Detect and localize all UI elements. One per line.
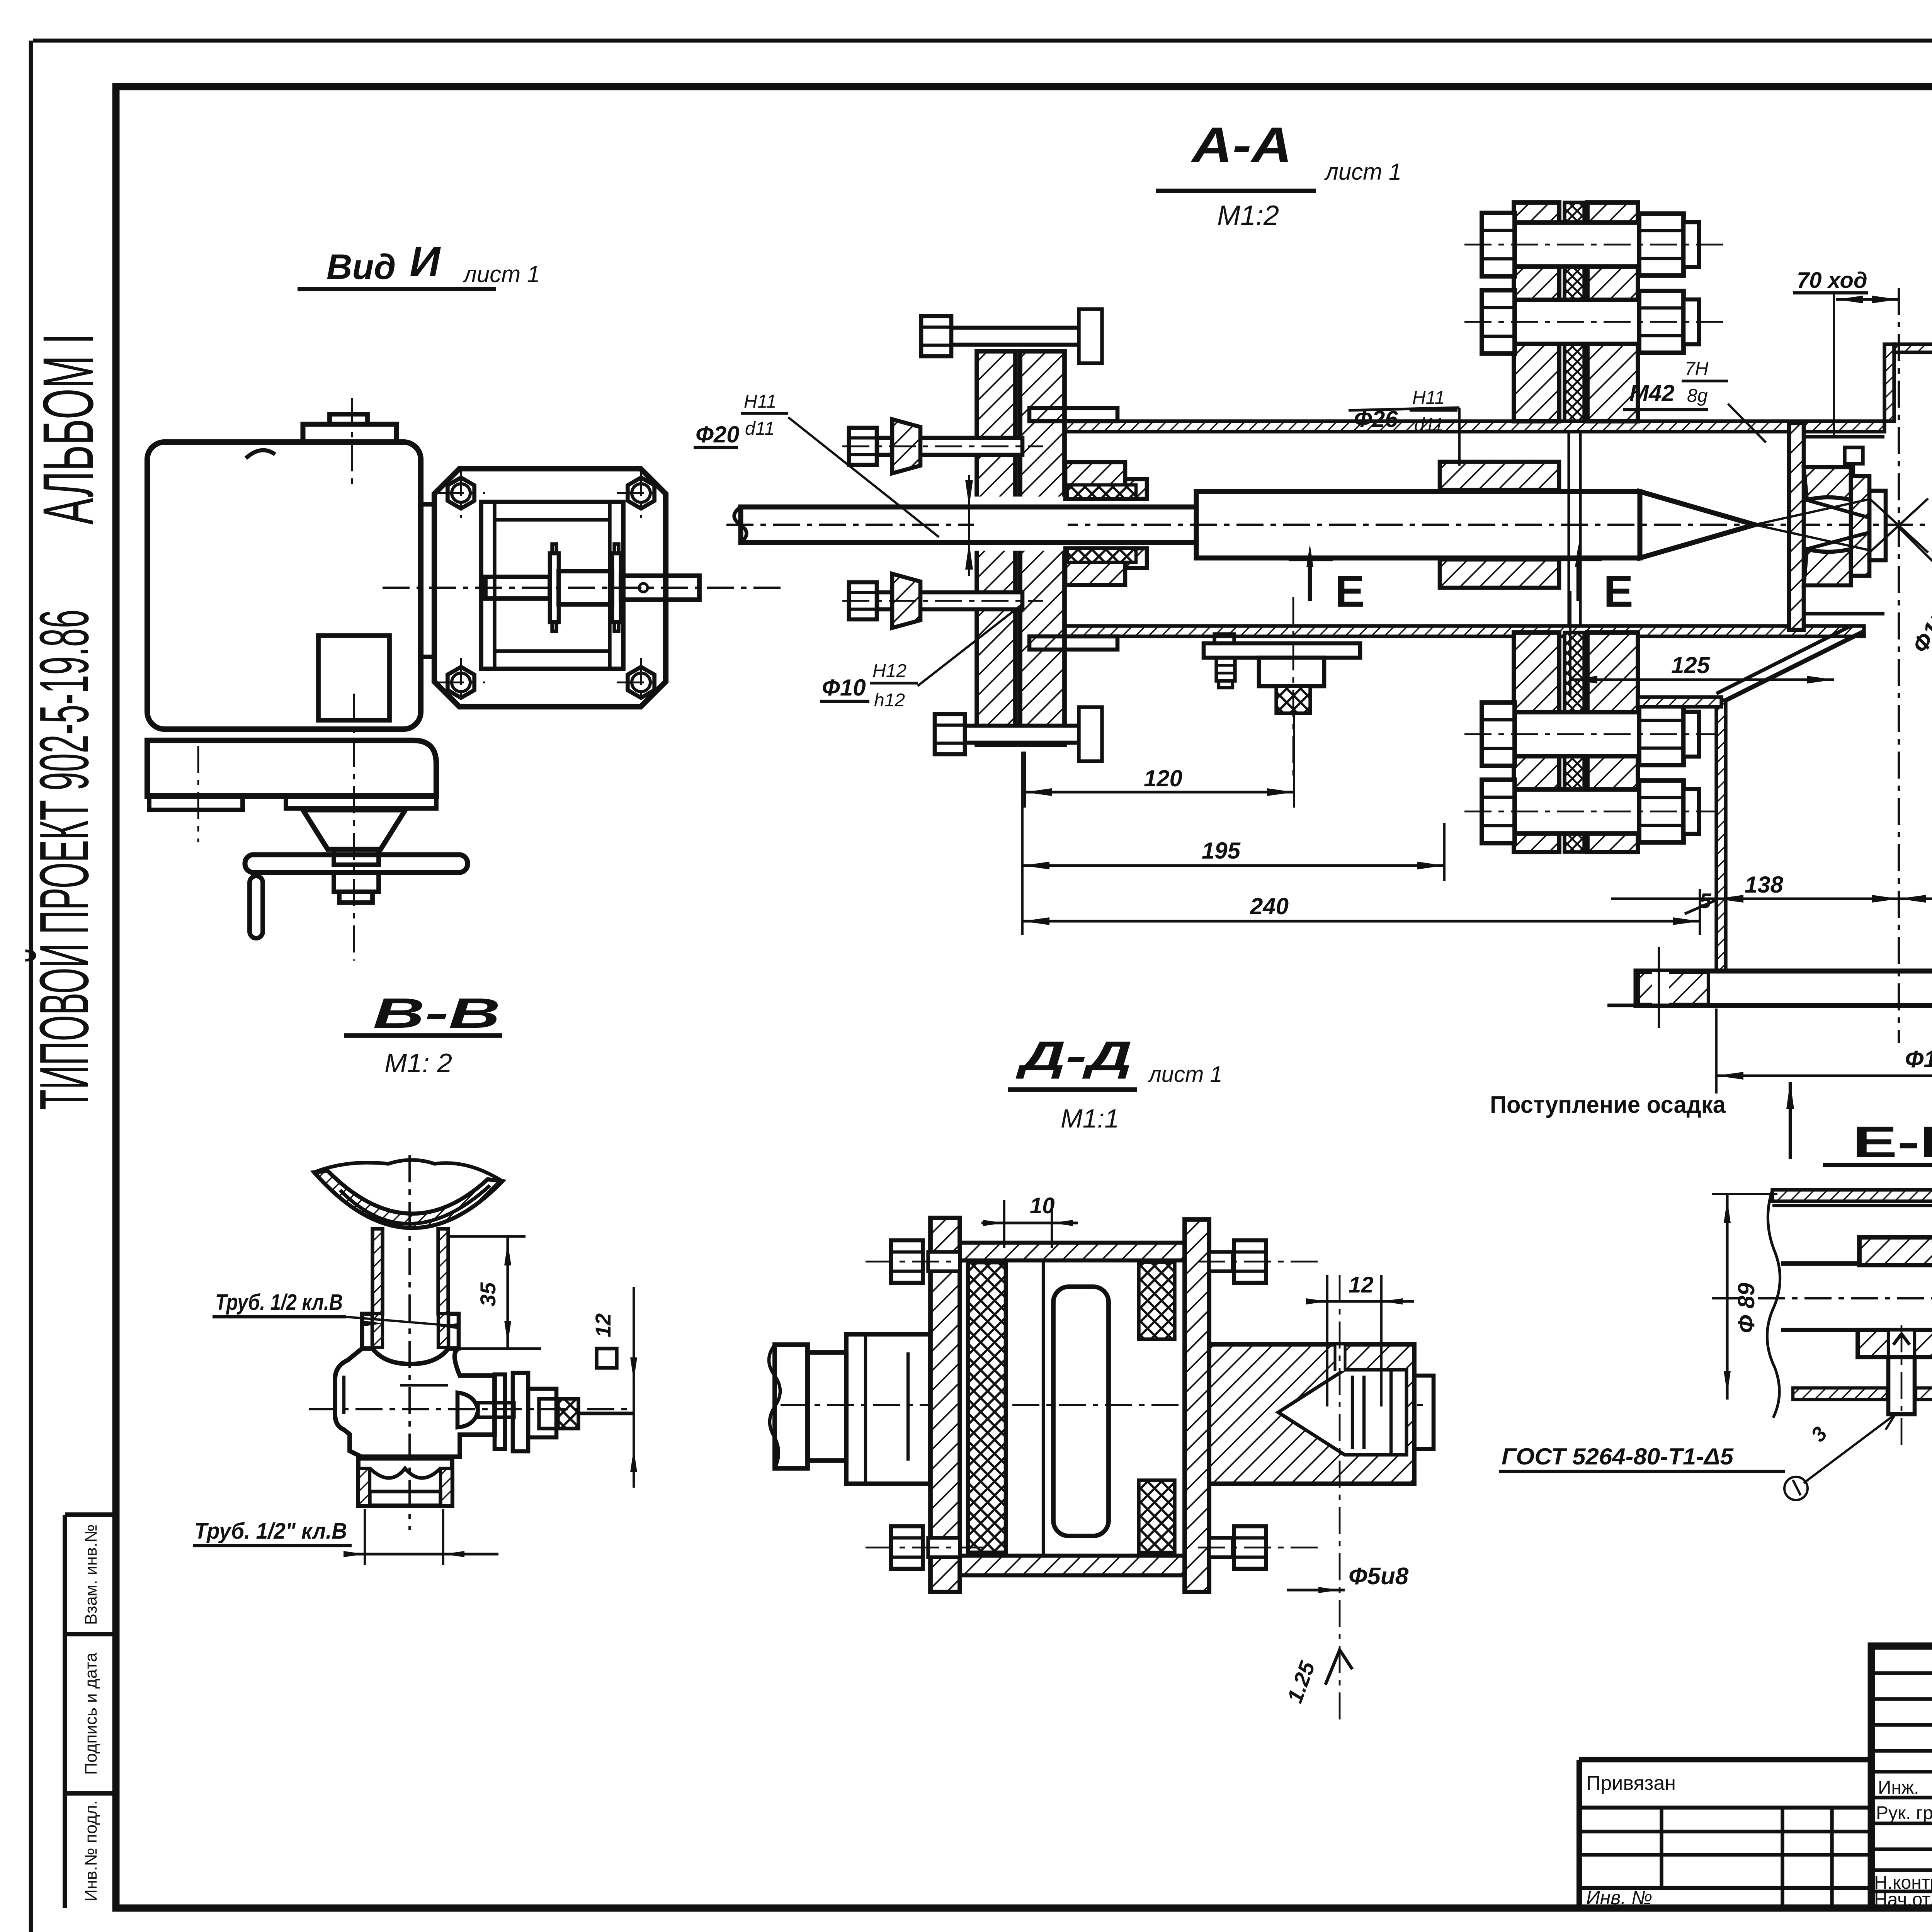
nozzle seat left wall xyxy=(1789,423,1804,630)
svg-text:d11: d11 xyxy=(745,418,775,439)
svg-text:ГОСТ 5264-80-Т1-Δ5: ГОСТ 5264-80-Т1-Δ5 xyxy=(1502,1444,1734,1469)
svg-text:М42: М42 xyxy=(1629,380,1675,406)
nozzle seat cap ring xyxy=(1851,476,1869,576)
chamber vertical step wall xyxy=(1884,344,1894,421)
sheet outer border left xyxy=(29,41,33,1932)
seat upper mount line xyxy=(1804,435,1884,438)
section mark E left xyxy=(1308,556,1312,601)
dimension 240 xyxy=(1022,920,1700,922)
drain valve packing xyxy=(1276,686,1310,713)
dimension 35 xyxy=(506,1236,509,1349)
svg-text:Труб. 1/2" кл.В: Труб. 1/2" кл.В xyxy=(194,1519,347,1544)
dimension chain 138 130 xyxy=(1611,897,1932,900)
rod diameter arrows xyxy=(965,480,973,507)
svg-text:d11: d11 xyxy=(1414,415,1444,435)
dd right crosshatch top xyxy=(1139,1262,1175,1339)
actuator top cap xyxy=(303,424,396,442)
svg-text:ТИПОВОЙ ПРОЕКТ 902-5-19.86: ТИПОВОЙ ПРОЕКТ 902-5-19.86 xyxy=(25,610,103,1110)
plate bolt top-right xyxy=(628,478,654,509)
svg-text:Инж.: Инж. xyxy=(1878,1777,1919,1798)
dd bolt bottom-left xyxy=(891,1526,923,1569)
valve riser pipe left wall xyxy=(372,1229,383,1314)
svg-text:Ф20: Ф20 xyxy=(696,422,740,447)
dd bolt top-right xyxy=(1209,1252,1233,1271)
pipe bottom drain boss step xyxy=(1214,634,1234,643)
lower cavity bottom wall xyxy=(1638,697,1721,707)
svg-text:лист 1: лист 1 xyxy=(463,261,540,287)
dd rubber block xyxy=(968,1262,1006,1553)
flange bolt upper 2 xyxy=(1515,300,1639,344)
inlet flange hatch left xyxy=(1638,972,1708,1004)
svg-text:Инв. №: Инв. № xyxy=(1586,1887,1652,1908)
ee rod area lines xyxy=(1781,1328,1932,1332)
dd right crosshatch bottom xyxy=(1139,1480,1175,1553)
valve stem square X xyxy=(558,1399,578,1429)
valve vertical centerline xyxy=(408,1155,411,1530)
dd bolt top-left xyxy=(891,1240,923,1283)
stud flange lower xyxy=(892,574,920,628)
shaft pin hole xyxy=(639,583,648,592)
valve body inner lines xyxy=(342,1376,345,1414)
pipe end ring upper xyxy=(1029,408,1117,421)
flange bolt lower 1 xyxy=(1515,712,1639,756)
stud flange upper xyxy=(892,419,920,473)
svg-text:138: 138 xyxy=(1745,872,1784,898)
svg-text:М1:1: М1:1 xyxy=(1061,1104,1119,1133)
ee centerline xyxy=(1712,1297,1932,1299)
lance cone tip xyxy=(1640,492,1755,558)
lance rod thick section xyxy=(1196,492,1640,558)
svg-text:АЛЬБОМ I: АЛЬБОМ I xyxy=(29,333,108,525)
actuator vertical centerline xyxy=(353,694,355,961)
svg-text:240: 240 xyxy=(1250,893,1289,919)
dimension 195 xyxy=(1022,864,1444,867)
drain hanging bolt xyxy=(1216,658,1235,681)
svg-text:И: И xyxy=(410,238,441,286)
dd bolt bottom-right xyxy=(1209,1538,1233,1557)
flange bolt lower 2 xyxy=(1515,789,1639,833)
guide ring upper xyxy=(1440,462,1559,490)
barrel bottom wall xyxy=(1029,626,1864,636)
svg-text:Е: Е xyxy=(1335,567,1365,616)
dd right plate xyxy=(1185,1219,1209,1592)
plate connector strip xyxy=(421,504,434,657)
nozzle seat bottom slab xyxy=(1804,549,1851,585)
svg-text:5: 5 xyxy=(1699,889,1712,913)
svg-text:Подпись и дата: Подпись и дата xyxy=(82,1652,100,1775)
svg-text:35: 35 xyxy=(476,1282,500,1306)
packing upper xyxy=(1067,485,1136,499)
dd left shaft xyxy=(775,1345,808,1468)
stuffing box top clamp bolt xyxy=(949,328,1080,345)
dd centerline xyxy=(781,1404,1430,1406)
saddle inner arc xyxy=(340,1185,490,1224)
svg-text:Нач.отд.: Нач.отд. xyxy=(1874,1889,1932,1910)
svg-text:Инв.№ подл.: Инв.№ подл. xyxy=(82,1800,100,1901)
dimension square 12 xyxy=(597,1349,617,1368)
saddle pipe break line xyxy=(314,1160,502,1181)
orifice centerline xyxy=(1898,288,1900,1043)
ee bore top line xyxy=(1781,1261,1932,1266)
drain valve block xyxy=(1259,658,1324,686)
svg-text:Н11: Н11 xyxy=(1412,388,1445,408)
svg-text:h12: h12 xyxy=(874,690,905,711)
svg-text:лист 1: лист 1 xyxy=(1148,1062,1223,1087)
ee boss hole xyxy=(1888,1332,1915,1359)
svg-text:Д-Д: Д-Д xyxy=(1015,1032,1132,1079)
stuffing box flange plate B xyxy=(1020,351,1065,745)
main axis centerline xyxy=(726,524,1932,526)
svg-text:Н11: Н11 xyxy=(744,391,777,412)
svg-text:Ф159: Ф159 xyxy=(1905,1046,1932,1073)
actuator body xyxy=(147,442,421,729)
actuator shaft centerline xyxy=(383,587,784,589)
funnel left wall xyxy=(1716,700,1726,971)
dd nozzle body xyxy=(1209,1344,1414,1484)
nozzle seat top slab xyxy=(1804,467,1851,500)
svg-text:В-В: В-В xyxy=(373,990,500,1037)
plate inner bracket xyxy=(481,502,623,669)
gland follower upper xyxy=(1065,462,1125,499)
dimension 120 xyxy=(1025,791,1294,793)
svg-text:195: 195 xyxy=(1202,838,1241,864)
gland follower lower xyxy=(1065,548,1125,585)
dimension Ф15 leader xyxy=(1899,527,1932,736)
plate bolt bottom-right xyxy=(628,667,654,698)
svg-text:120: 120 xyxy=(1144,765,1182,791)
actuator cone xyxy=(303,810,405,849)
ee boss bottom xyxy=(1858,1330,1932,1357)
rod clearance gap in flange xyxy=(974,497,1068,551)
flange bolt upper 1 xyxy=(1515,223,1639,267)
actuator handle bar xyxy=(245,855,468,872)
stuffing box flange plate A xyxy=(977,351,1015,745)
dd nozzle bore xyxy=(1278,1370,1406,1455)
svg-text:Ф5и8: Ф5и8 xyxy=(1349,1563,1409,1590)
pipe end ring lower xyxy=(1029,636,1117,650)
shaft coupling flanges xyxy=(550,553,559,622)
ee plug stud xyxy=(1888,1357,1915,1414)
dd left flange plate xyxy=(930,1218,960,1592)
dd bottom plate xyxy=(960,1556,1185,1575)
ee boss top xyxy=(1859,1237,1932,1265)
section mark E right xyxy=(1577,556,1581,601)
flange pair upper gasket xyxy=(1565,202,1584,421)
valve bottom cap nut xyxy=(358,1458,452,1506)
svg-text:7Н: 7Н xyxy=(1685,359,1709,379)
drain centerline xyxy=(1293,597,1294,777)
title block outer box xyxy=(1871,1646,1932,1908)
plate bolt top-left xyxy=(447,478,474,509)
actuator base plate xyxy=(147,740,436,796)
dd adapter block xyxy=(846,1334,930,1484)
svg-text:Е-Е: Е-Е xyxy=(1852,1117,1932,1167)
svg-text:Труб. 1/2 кл.В: Труб. 1/2 кл.В xyxy=(215,1290,343,1315)
svg-text:М1:2: М1:2 xyxy=(1217,200,1279,231)
gasket joint through pipe xyxy=(1567,432,1570,626)
valve stem bolt xyxy=(478,1403,514,1417)
actuator cable hook xyxy=(246,450,275,458)
valve bonnet plates xyxy=(495,1374,505,1449)
actuator lower flange xyxy=(334,872,379,892)
chamber top wall xyxy=(1894,344,1932,352)
inlet flange bar xyxy=(1636,971,1932,1005)
actuator handle pin xyxy=(250,876,263,938)
dimension 125 xyxy=(1570,678,1834,681)
mounting stud lower xyxy=(877,592,1022,609)
seat top screw xyxy=(1845,447,1863,464)
svg-text:лист 1: лист 1 xyxy=(1324,159,1401,185)
dd hole centerline xyxy=(1339,1275,1341,1723)
svg-text:Рук. гр.: Рук. гр. xyxy=(1876,1803,1932,1823)
flange pair upper right plate xyxy=(1587,202,1638,421)
riser thread bushing xyxy=(362,1314,372,1349)
valve gland xyxy=(528,1389,556,1437)
svg-text:Н12: Н12 xyxy=(872,661,906,681)
attachment table xyxy=(1579,1757,1871,1762)
valve saddle crescent xyxy=(314,1171,502,1228)
flange pair lower right plate xyxy=(1587,633,1638,852)
actuator feet xyxy=(149,796,243,810)
flange pair upper left plate xyxy=(1514,202,1559,421)
svg-text:125: 125 xyxy=(1671,652,1711,678)
svg-text:Е: Е xyxy=(1604,567,1633,616)
svg-text:Ф 89: Ф 89 xyxy=(1733,1282,1759,1333)
dd top plate xyxy=(960,1243,1185,1260)
foot centerline xyxy=(197,746,199,842)
inlet flow arrow xyxy=(1789,1082,1792,1159)
valve riser pipe right wall xyxy=(438,1229,448,1314)
svg-text:8g: 8g xyxy=(1687,386,1708,406)
svg-text:Ф10: Ф10 xyxy=(822,675,866,701)
svg-text:Взам. инв.№: Взам. инв.№ xyxy=(82,1524,100,1625)
valve body outline xyxy=(335,1349,495,1457)
title block left rows xyxy=(1871,1671,1932,1675)
inlet flange bolt hole left xyxy=(1652,972,1669,1004)
mounting stud upper xyxy=(877,438,1022,455)
valve stem end xyxy=(578,1412,634,1415)
ee bottom wall xyxy=(1793,1388,1887,1400)
stuffing box bottom clamp bolt xyxy=(962,726,1080,743)
actuator top centerline xyxy=(351,398,353,485)
weld leader 3 xyxy=(1804,1414,1895,1483)
flange pair lower left plate xyxy=(1514,633,1559,852)
svg-text:Привязан: Привязан xyxy=(1586,1772,1676,1794)
svg-text:12: 12 xyxy=(591,1313,615,1337)
guide ring lower xyxy=(1440,560,1559,588)
svg-text:70 ход: 70 ход xyxy=(1797,268,1867,293)
barrel top wall xyxy=(1029,421,1884,432)
dimension Ф89 xyxy=(1726,1194,1728,1400)
margin box column xyxy=(63,1515,67,1908)
actuator window xyxy=(318,636,389,720)
dd right shaft stub xyxy=(1414,1376,1434,1449)
dd nozzle spray hole xyxy=(1335,1345,1345,1371)
seat bore cone lines xyxy=(1807,500,1869,518)
svg-text:Вид: Вид xyxy=(327,247,396,287)
dimension Ф159 inlet flange xyxy=(1716,1074,1932,1077)
ee top wall xyxy=(1772,1190,1932,1201)
actuator shaft xyxy=(485,577,550,599)
valve horizontal centerline xyxy=(309,1408,634,1410)
svg-text:12: 12 xyxy=(1349,1272,1374,1298)
pipe bottom drain plate xyxy=(1204,643,1360,658)
dd central stem xyxy=(1053,1287,1109,1536)
lance rod left section xyxy=(741,507,1196,543)
sheet outer border top xyxy=(33,39,1932,43)
actuator mounting plate xyxy=(434,469,666,707)
svg-text:Поступление осадка: Поступление осадка xyxy=(1490,1092,1726,1118)
seat construction X lines xyxy=(1869,498,1928,553)
inlet flange bottom line xyxy=(1607,1003,1932,1007)
valve plug xyxy=(457,1393,478,1427)
flange pair lower gasket xyxy=(1565,633,1584,852)
packing lower xyxy=(1067,548,1136,562)
plate bolt bottom-left xyxy=(447,667,474,698)
svg-text:М1: 2: М1: 2 xyxy=(384,1048,452,1078)
svg-text:А-А: А-А xyxy=(1190,117,1292,173)
funnel left slant xyxy=(1726,631,1864,700)
ee left pipe break xyxy=(1767,1190,1780,1418)
